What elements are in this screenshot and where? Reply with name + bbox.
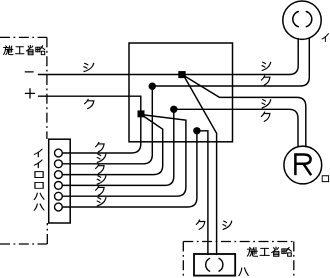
wire: block terminal 2 シ up to dot1 xyxy=(62,86,152,164)
label シ on source line xyxy=(84,63,94,71)
lamp socket イ circle xyxy=(283,1,321,39)
receptacle R circle xyxy=(284,146,322,184)
dash-dot border bottom-right (施工省略 region) xyxy=(183,242,293,278)
wire: block terminal 5 ク up then diagonal to ■2 xyxy=(62,115,186,196)
( ) symbol in ハ xyxy=(206,258,210,271)
junction dot1 xyxy=(149,83,156,90)
junction dot3 xyxy=(193,127,200,134)
junction dot2 xyxy=(170,106,177,113)
minus sign xyxy=(25,71,33,73)
labels シク on ロ pair xyxy=(262,100,271,108)
dash-dot border bottom-left xyxy=(0,223,47,244)
wire: ■1 to ロ white, exits right to R xyxy=(185,76,306,147)
wire: ■1 to ハ white, down to fixture xyxy=(185,77,217,255)
施工省略 label top-left xyxy=(4,45,45,54)
wire: block terminal 4 シ up to dot2 xyxy=(62,109,174,185)
outlet box xyxy=(129,43,233,142)
wire: dot1 to lamp イ black xyxy=(152,38,309,86)
ceiling fixture ハ box xyxy=(194,254,235,276)
terminal circles xyxy=(55,149,63,157)
wire: block terminal 1 ク up to ■2 xyxy=(62,117,141,153)
label ク on source line xyxy=(85,99,94,108)
( ) symbol in イ xyxy=(293,12,299,27)
labels シク on イ pair xyxy=(262,62,271,70)
wire: source neutral シ line to lamp イ xyxy=(39,39,299,75)
wire: block terminal 3 ク up then diagonal to ■2 xyxy=(62,116,162,174)
dash-dot border top-left (施工省略 region) xyxy=(0,37,47,139)
connector ■2 xyxy=(138,110,145,117)
wire: block terminal 6 シ up to dot3 xyxy=(62,131,197,207)
plus sign xyxy=(25,89,34,98)
wire: dot3 to ハ black xyxy=(197,131,208,255)
label ハ xyxy=(239,268,248,276)
label イ xyxy=(322,34,328,42)
labels ク シ on ハ pair xyxy=(196,220,205,229)
wire: source hot ク line down to connector xyxy=(39,96,141,110)
label ロ xyxy=(322,176,328,182)
labels イイロロハハ xyxy=(34,149,42,157)
wire: dot2 to R ロ black xyxy=(174,109,298,146)
connector ■1 xyxy=(178,71,185,78)
terminal block xyxy=(49,139,70,223)
施工省略 label bottom-right xyxy=(247,247,291,256)
R letter xyxy=(295,153,311,175)
labels クシクシクシ on block wires xyxy=(96,142,105,151)
